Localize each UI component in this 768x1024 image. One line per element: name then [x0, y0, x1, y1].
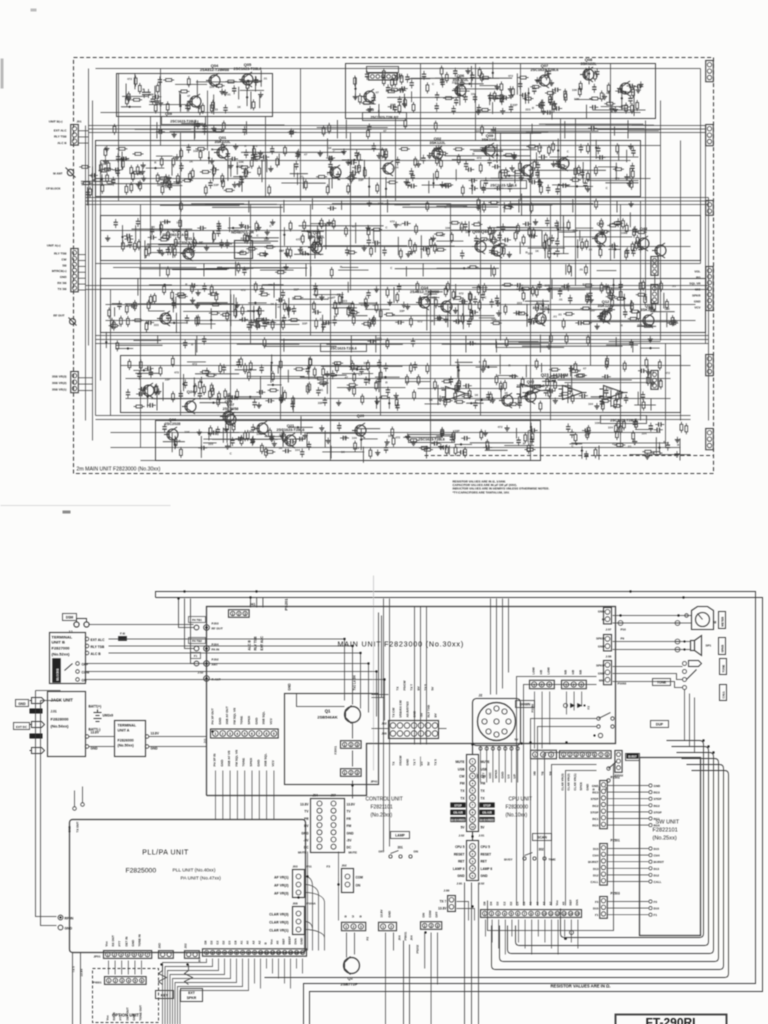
- transistor: [157, 311, 171, 326]
- svg-text:FM: FM: [460, 782, 465, 786]
- svg-text:7: 7: [524, 912, 526, 916]
- svg-text:CP BLOCK: CP BLOCK: [46, 187, 61, 191]
- svg-text:6: 6: [251, 732, 253, 736]
- svg-text:SPKR: SPKR: [247, 715, 251, 724]
- svg-text:PTT: PTT: [118, 941, 122, 947]
- svg-text:16: 16: [295, 951, 299, 955]
- svg-text:4: 4: [128, 979, 130, 983]
- svg-text:J32: J32: [184, 943, 188, 948]
- svg-text:-5V: -5V: [420, 713, 424, 718]
- svg-text:2m MAIN UNIT F2823000 (No.30xx: 2m MAIN UNIT F2823000 (No.30xx): [77, 467, 161, 473]
- svg-text:8: 8: [248, 951, 250, 955]
- svg-text:D2: D2: [509, 901, 513, 905]
- svg-text:10: 10: [259, 951, 263, 955]
- svg-text:P2501: P2501: [611, 839, 620, 843]
- svg-text:F1: F1: [654, 913, 658, 917]
- SW UNIT box: [640, 758, 701, 936]
- svg-text:1: 1: [108, 979, 110, 983]
- inner dashed boundary: [425, 455, 714, 457]
- svg-text:MIC: MIC: [695, 288, 701, 292]
- transistor Q06: [452, 83, 466, 98]
- svg-text:3: 3: [360, 925, 362, 929]
- cpu strip drop wires: [486, 920, 578, 955]
- svg-text:VOL: VOL: [694, 270, 700, 274]
- svg-text:METER: METER: [721, 617, 725, 627]
- svg-text:HB: HB: [539, 669, 543, 674]
- svg-text:LOW: LOW: [532, 667, 536, 674]
- svg-text:FM SQL VR: FM SQL VR: [234, 749, 238, 767]
- EXT DC label box: [14, 723, 30, 730]
- svg-text:C2: C2: [502, 901, 506, 905]
- svg-text:TX: TX: [396, 687, 400, 691]
- svg-text:J11: J11: [204, 738, 208, 743]
- svg-text:472: 472: [395, 436, 400, 440]
- OPTION UNIT dashed box: [93, 969, 159, 1023]
- svg-text:2: 2: [350, 743, 352, 747]
- transistor Q05: [239, 72, 253, 87]
- svg-text:47: 47: [304, 153, 308, 157]
- coax jack PJ03 RF OUT: [189, 617, 206, 623]
- svg-text:CONTROL UNIT: CONTROL UNIT: [366, 797, 403, 803]
- svg-text:PO: PO: [696, 276, 701, 280]
- svg-text:CW: CW: [481, 775, 486, 779]
- svg-text:RF OUT: RF OUT: [212, 627, 223, 631]
- connector JP01: [104, 951, 152, 959]
- svg-text:GND: GND: [254, 717, 258, 725]
- svg-text:JP01: JP01: [93, 955, 100, 959]
- J04 drop wires: [425, 933, 438, 1024]
- boxed label Q09 2SC1623-T28L6: [162, 117, 206, 125]
- svg-text:3SB AF VR: 3SB AF VR: [227, 750, 231, 767]
- mic jack contacts: [683, 662, 687, 666]
- strip CLAR VR (8 pin): [560, 751, 612, 759]
- svg-text:10K: 10K: [445, 226, 451, 230]
- svg-text:4: 4: [581, 753, 583, 757]
- svg-text:J3D: J3D: [158, 942, 162, 948]
- svg-text:2SB546AK: 2SB546AK: [317, 715, 337, 720]
- svg-text:223: 223: [240, 237, 245, 241]
- svg-text:P2502: P2502: [611, 776, 620, 780]
- svg-text:D3: D3: [496, 901, 500, 905]
- svg-text:472: 472: [241, 288, 246, 292]
- left antenna jack M ANT: [67, 169, 73, 175]
- svg-text:FR: FR: [347, 817, 352, 821]
- op-amp U1c: [559, 386, 587, 400]
- svg-text:TX CW: TX CW: [392, 708, 396, 718]
- svg-text:RLY TSB: RLY TSB: [254, 636, 258, 651]
- svg-text:(No.10xx): (No.10xx): [506, 813, 528, 819]
- svg-text:SPKR: SPKR: [596, 637, 605, 641]
- svg-text:TERMINAL: TERMINAL: [118, 724, 137, 728]
- svg-text:.01: .01: [627, 444, 632, 448]
- connector J04/J07 dual column: [311, 799, 345, 853]
- svg-text:J2: J2: [479, 694, 483, 698]
- svg-text:STEP: STEP: [591, 797, 599, 801]
- svg-text:472: 472: [665, 371, 670, 375]
- SW unit connector P2502: [600, 781, 608, 829]
- phone plug barrel 2: [30, 734, 43, 739]
- svg-text:DSM: DSM: [66, 616, 74, 620]
- left connector J102: [71, 249, 78, 292]
- svg-text:CPU 5: CPU 5: [455, 845, 465, 849]
- svg-text:.01: .01: [672, 284, 677, 288]
- svg-text:A0: A0: [246, 940, 250, 944]
- svg-text:ON: ON: [356, 884, 361, 888]
- svg-text:H2C: H2C: [488, 772, 492, 779]
- svg-text:CLAR VR(1): CLAR VR(1): [573, 773, 577, 790]
- svg-text:LAMP: LAMP: [395, 834, 405, 838]
- coax jack PJ04 PA IN: [189, 638, 206, 644]
- svg-text:D2: D2: [222, 940, 226, 944]
- svg-text:A5: A5: [276, 940, 280, 944]
- svg-text:UNIT A(+): UNIT A(+): [47, 244, 61, 248]
- transistor Q06: [164, 427, 178, 442]
- svg-text:PA IN: PA IN: [212, 648, 220, 652]
- junction dots: [249, 596, 251, 598]
- svg-text:PR/CW: PR/CW: [403, 680, 407, 690]
- inner connector J208: [651, 285, 658, 304]
- svg-text:P4001: P4001: [93, 981, 102, 985]
- svg-text:2SC1623-T28L6: 2SC1623-T28L6: [490, 184, 517, 188]
- svg-text:F2825000: F2825000: [126, 868, 157, 875]
- svg-text:2SC3058: 2SC3058: [223, 407, 239, 411]
- transistor: [652, 243, 666, 258]
- transistor Q42: [592, 231, 606, 246]
- svg-text:AF VR(1): AF VR(1): [274, 876, 288, 880]
- mic jack label box 1: [720, 659, 727, 675]
- svg-text:ON AIR: ON AIR: [482, 811, 491, 815]
- svg-text:2SC1623-T28L6: 2SC1623-T28L6: [418, 438, 445, 442]
- svg-text:LOW: LOW: [547, 667, 551, 674]
- svg-text:STEP: STEP: [654, 797, 662, 801]
- terminal unit B pin rows: [85, 637, 89, 641]
- RC network texture gaps: [202, 126, 206, 135]
- svg-text:F2826000: F2826000: [118, 739, 134, 743]
- svg-text:10K: 10K: [124, 244, 130, 248]
- svg-text:GND: GND: [347, 831, 355, 835]
- scan fold line: [373, 576, 375, 771]
- J2 wires: [481, 746, 518, 783]
- svg-text:FR/CW: FR/CW: [399, 756, 403, 766]
- svg-text:1: 1: [484, 912, 486, 916]
- JP01-P4001 wires: [109, 961, 142, 975]
- right connector J204: [706, 267, 713, 311]
- svg-text:3SK122L: 3SK122L: [429, 141, 446, 145]
- RC network texture row 5: [318, 382, 329, 385]
- svg-text:F-B: F-B: [120, 632, 126, 636]
- right connector J201: [706, 61, 714, 82]
- transistor Q29: [308, 240, 322, 255]
- svg-text:CW: CW: [62, 257, 67, 261]
- svg-text:33P: 33P: [318, 401, 323, 405]
- svg-text:6: 6: [517, 912, 519, 916]
- svg-text:GND: GND: [256, 759, 260, 767]
- svg-text:CH4: CH4: [592, 854, 598, 858]
- svg-text:1: 1: [345, 925, 347, 929]
- svg-text:GND: GND: [65, 927, 73, 931]
- svg-text:P10: P10: [621, 628, 627, 632]
- svg-text:USB: USB: [458, 767, 465, 771]
- shield box row 4 (IF row): [101, 279, 706, 333]
- svg-text:BV: BV: [417, 686, 421, 690]
- svg-text:TONE OUT: TONE OUT: [139, 1005, 143, 1021]
- svg-text:RX OUT: RX OUT: [111, 935, 115, 947]
- svg-text:3SK122L: 3SK122L: [481, 138, 498, 142]
- svg-text:5: 5: [588, 753, 590, 757]
- EXT SPKR label box: [181, 989, 203, 1002]
- svg-text:CLAR VR(2): CLAR VR(2): [567, 773, 571, 790]
- transistor Q21: [282, 433, 296, 448]
- svg-text:P2503: P2503: [611, 892, 620, 896]
- svg-text:J04: J04: [398, 935, 402, 940]
- DOWN label box: [516, 701, 535, 708]
- svg-text:10K: 10K: [184, 430, 190, 434]
- svg-text:RG2: RG2: [592, 804, 599, 808]
- svg-text:P5202: P5202: [416, 944, 420, 953]
- svg-text:47: 47: [361, 303, 365, 307]
- svg-text:3: 3: [121, 979, 123, 983]
- svg-text:D4: D4: [489, 901, 493, 905]
- boxed label Q16 2SC1623-T28L6: [481, 181, 527, 189]
- svg-text:47: 47: [352, 225, 356, 229]
- transistor Q09-Q44: [472, 239, 486, 254]
- svg-text:1: 1: [533, 683, 535, 687]
- shield box row 2 (Q01 mixer row): [96, 141, 641, 197]
- svg-text:D15: D15: [593, 847, 599, 851]
- svg-text:COM: COM: [82, 671, 90, 675]
- svg-text:BURST: BURST: [628, 756, 637, 759]
- svg-text:RG3: RG3: [654, 791, 661, 795]
- svg-text:RG2: RG2: [654, 804, 661, 808]
- svg-text:CPU 5: CPU 5: [481, 845, 491, 849]
- svg-text:2SC1623-T28L6: 2SC1623-T28L6: [330, 347, 357, 351]
- svg-text:J.02: J.02: [459, 834, 465, 838]
- svg-text:5: 5: [244, 732, 246, 736]
- svg-text:15: 15: [289, 951, 293, 955]
- connector 13.8V/GND: [379, 922, 397, 930]
- svg-text:JACK UNIT: JACK UNIT: [51, 698, 74, 703]
- svg-text:472: 472: [417, 319, 422, 323]
- svg-text:2: 2: [238, 612, 240, 616]
- transistor Q04: [206, 73, 220, 88]
- svg-text:RET: RET: [458, 860, 464, 864]
- svg-text:GND: GND: [68, 825, 72, 833]
- svg-text:2: 2: [114, 953, 116, 957]
- svg-text:NB: NB: [564, 669, 568, 674]
- svg-text:BATT(+): BATT(+): [89, 705, 102, 709]
- right connector J206: [706, 429, 714, 450]
- svg-text:6: 6: [141, 979, 143, 983]
- svg-text:SPKR: SPKR: [692, 294, 701, 298]
- svg-text:PLL/PA UNIT: PLL/PA UNIT: [142, 850, 189, 857]
- terminal unit A box: [115, 721, 146, 757]
- svg-text:GND: GND: [598, 645, 606, 649]
- svg-text:F2827000: F2827000: [52, 646, 71, 651]
- svg-text:12: 12: [556, 912, 560, 916]
- svg-text:3: 3: [244, 612, 246, 616]
- left connector J101: [71, 125, 79, 146]
- svg-text:104: 104: [393, 166, 398, 170]
- transistor Q20: [352, 423, 366, 438]
- svg-text:Vcc: Vcc: [106, 1015, 110, 1021]
- svg-text:MUTE: MUTE: [481, 760, 490, 764]
- transistor: [438, 299, 452, 314]
- svg-text:BUSY/RED: BUSY/RED: [480, 818, 494, 822]
- speaker wires: [613, 642, 691, 650]
- svg-text:J32: J32: [381, 722, 386, 726]
- svg-text:5: 5: [230, 951, 232, 955]
- transistor Q1 2SB546AK: [345, 707, 361, 723]
- svg-text:TX 5: TX 5: [434, 759, 438, 766]
- svg-text:GND: GND: [598, 672, 606, 676]
- svg-text:47: 47: [578, 368, 582, 372]
- transistor Q07: [536, 73, 550, 88]
- svg-text:P9: P9: [621, 637, 625, 641]
- svg-text:RLY TSB: RLY TSB: [54, 135, 67, 139]
- mic round connector J2: [473, 699, 521, 746]
- svg-text:1: 1: [232, 612, 234, 616]
- svg-text:VCV: VCV: [269, 717, 273, 724]
- svg-text:13.8V: 13.8V: [91, 731, 100, 735]
- svg-text:KEY: KEY: [161, 994, 169, 998]
- svg-text:14: 14: [283, 951, 287, 955]
- svg-text:CH4: CH4: [654, 854, 660, 858]
- svg-text:-5V: -5V: [347, 839, 353, 843]
- LAMP switch 301: [391, 832, 410, 839]
- speaker label box: [719, 638, 726, 655]
- svg-text:C2: C2: [216, 940, 220, 944]
- KEY label box: [156, 991, 174, 999]
- shield box row 5 (audio row): [121, 356, 681, 413]
- transistor: [327, 165, 341, 180]
- inner routing wires: [384, 599, 427, 851]
- interconnect top bus wires: [156, 592, 763, 1024]
- terminal B to PLL wire bundle: [86, 639, 385, 721]
- svg-text:EXT: EXT: [188, 991, 196, 995]
- svg-text:GND: GND: [60, 275, 68, 279]
- svg-text:3: 3: [229, 732, 231, 736]
- svg-text:47: 47: [366, 108, 370, 112]
- svg-text:ANT: ANT: [212, 663, 218, 667]
- svg-text:13.8V: 13.8V: [380, 910, 384, 918]
- svg-text:TONE: TONE: [722, 665, 726, 673]
- J41 bus drop wires: [251, 598, 263, 608]
- svg-text:33P: 33P: [294, 288, 299, 292]
- svg-text:F2820000: F2820000: [506, 805, 529, 811]
- svg-text:PA TB1: PA TB1: [192, 618, 202, 622]
- transistor Q11: [640, 313, 654, 328]
- svg-text:Q2: Q2: [348, 976, 354, 981]
- svg-text:A3: A3: [252, 940, 256, 944]
- svg-text:F1: F1: [194, 654, 198, 658]
- svg-text:J.52: J.52: [198, 671, 204, 675]
- svg-text:12: 12: [271, 951, 275, 955]
- svg-text:2SC1623-T28L6/2: 2SC1623-T28L6/2: [371, 116, 399, 120]
- svg-text:47: 47: [345, 375, 349, 379]
- svg-text:104: 104: [149, 99, 154, 103]
- svg-text:VCV: VCV: [271, 759, 275, 766]
- svg-text:SPKR: SPKR: [187, 996, 197, 1000]
- BURST black chip: [627, 754, 639, 759]
- transistor: [489, 243, 503, 258]
- svg-text:ON: ON: [414, 850, 419, 854]
- svg-text:RG0: RG0: [654, 824, 661, 828]
- svg-text:104: 104: [308, 235, 313, 239]
- svg-text:GND: GND: [288, 683, 292, 691]
- svg-text:33P: 33P: [165, 378, 170, 382]
- svg-text:GND: GND: [598, 610, 606, 614]
- svg-text:3: 3: [580, 683, 582, 687]
- svg-text:GND: GND: [457, 874, 465, 878]
- svg-text:F1: F1: [595, 913, 599, 917]
- svg-text:A3: A3: [542, 901, 546, 905]
- svg-text:47: 47: [531, 174, 535, 178]
- svg-text:RF OUT: RF OUT: [53, 314, 64, 318]
- svg-text:1: 1: [215, 732, 217, 736]
- switch S4 DUP: [597, 717, 600, 720]
- svg-text:104: 104: [474, 129, 479, 133]
- svg-text:D8: D8: [204, 940, 208, 944]
- svg-text:RLY TXB: RLY TXB: [427, 704, 431, 717]
- svg-text:CPU UNIT: CPU UNIT: [509, 797, 533, 803]
- phone plug jack 1: [30, 698, 45, 704]
- svg-text:TX 5: TX 5: [424, 684, 428, 691]
- svg-text:1: 1: [344, 771, 346, 775]
- svg-text:J.99: J.99: [444, 889, 450, 893]
- svg-text:GND: GND: [388, 910, 392, 918]
- svg-text:MAIN UNIT F2823000 (No.30xx): MAIN UNIT F2823000 (No.30xx): [338, 640, 465, 649]
- svg-text:8: 8: [530, 912, 532, 916]
- svg-text:(No.54xx): (No.54xx): [51, 724, 70, 729]
- shield box row 6 (bottom): [156, 421, 541, 461]
- svg-text:TONE: TONE: [657, 681, 667, 685]
- svg-text:GND: GND: [592, 784, 600, 788]
- svg-text:COM: COM: [356, 876, 364, 880]
- svg-text:17: 17: [301, 951, 305, 955]
- svg-text:UNIT A: UNIT A: [118, 729, 130, 733]
- svg-text:OPTION UNIT: OPTION UNIT: [112, 1013, 139, 1018]
- svg-text:F2822101: F2822101: [653, 828, 678, 834]
- inner connector J207: [651, 257, 658, 276]
- svg-text:104: 104: [295, 448, 300, 452]
- svg-text:STOP: STOP: [483, 803, 490, 807]
- svg-text:2: 2: [573, 683, 575, 687]
- transistor Q08: [580, 67, 594, 82]
- svg-text:472: 472: [476, 156, 481, 160]
- svg-text:RESET: RESET: [481, 852, 492, 856]
- svg-text:SPKR: SPKR: [721, 645, 725, 653]
- terminal A pins: [85, 735, 89, 739]
- svg-text:STOP: STOP: [454, 803, 461, 807]
- svg-text:F2828000: F2828000: [51, 717, 70, 722]
- transistor: [519, 163, 533, 178]
- left connector stub wires: [79, 131, 93, 391]
- transistor Q25: [220, 409, 234, 424]
- svg-text:AF VR(2): AF VR(2): [274, 884, 288, 888]
- svg-text:OFF: OFF: [379, 850, 385, 854]
- svg-text:3: 3: [575, 753, 577, 757]
- svg-text:HB: HB: [571, 669, 575, 674]
- svg-text:33P: 33P: [399, 309, 404, 313]
- transistor: [499, 393, 513, 408]
- svg-text:1: 1: [565, 683, 567, 687]
- svg-text:GND: GND: [413, 710, 417, 718]
- svg-text:MUTE: MUTE: [455, 760, 464, 764]
- svg-text:33P: 33P: [302, 322, 307, 326]
- long horizontal bus wires: [86, 69, 709, 461]
- left long wires to PLL: [36, 691, 61, 926]
- svg-text:6: 6: [594, 753, 596, 757]
